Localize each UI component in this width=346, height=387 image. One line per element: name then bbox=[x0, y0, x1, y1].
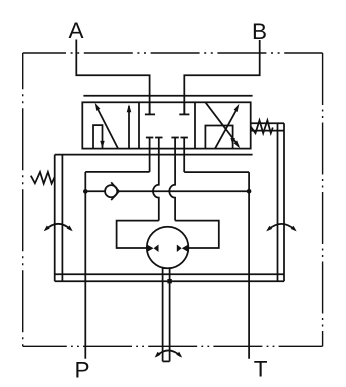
directional valve V1 body (3 position boxes) bbox=[82, 102, 250, 148]
spring cavity channel lines bbox=[251, 123, 284, 130]
valve right position: crossed arrow up-right bbox=[215, 104, 239, 149]
junction node on P gallery bbox=[83, 189, 88, 194]
wire: valve bottom stub 2 down to motor loop (with hop over check line) bbox=[153, 138, 159, 221]
svg-text:P: P bbox=[74, 357, 89, 382]
valve right position: crossed arrow down-right bbox=[205, 102, 240, 148]
svg-text:A: A bbox=[68, 18, 83, 43]
wire: motor loop left branch bbox=[117, 221, 159, 248]
plugged-port arc arrow on right channel bbox=[266, 224, 297, 232]
wire: port B line down, left, into valve port B with blocked cap bbox=[179, 40, 259, 114]
flow divider (motor) circle M1 bbox=[147, 227, 189, 269]
wire: valve bottom stub 4 to T gallery (right work line) bbox=[184, 138, 249, 359]
wire: drain channel from motor bottom (double line) bbox=[163, 267, 170, 362]
valve left position: pocket with down arrow bbox=[93, 125, 105, 149]
left bowtie triangles inside circle bbox=[147, 245, 159, 253]
junction node (square) drain to bottom gallery bbox=[167, 279, 171, 283]
valve return spring (right side) bbox=[251, 120, 273, 133]
right bowtie triangles inside circle bbox=[177, 245, 189, 253]
manifold block bottom double edge bbox=[55, 274, 284, 281]
wire: motor loop right branch bbox=[175, 221, 219, 248]
plugged-port arc arrow on left channel bbox=[44, 224, 73, 232]
valve left position: diagonal flow arrow P-to-A bbox=[95, 103, 118, 149]
wire: valve bottom stub 1 to P gallery (left work line) bbox=[85, 138, 149, 359]
check valve line P to T bbox=[85, 190, 249, 192]
valve centre position: four blocked bottom stubs caps bbox=[146, 137, 188, 139]
wire: port A line down, right, into valve port A with blocked cap bbox=[76, 40, 155, 115]
wire: valve bottom stub 3 down to motor loop (with hop over check line) bbox=[169, 138, 175, 221]
junction node on T gallery bbox=[247, 189, 252, 194]
valve right position: pocket with down arrow bbox=[205, 126, 234, 149]
manifold block top edge bbox=[55, 154, 253, 156]
line above valve (subplate interface) bbox=[83, 95, 252, 97]
valve left position: vertical up flow arrow bbox=[127, 104, 132, 148]
enclosure boundary (dash-dot-dot frame) bbox=[23, 53, 323, 346]
manifold block right double edge (channel from spring) bbox=[278, 123, 285, 281]
valve centre position: blocked port A cap bbox=[149, 102, 151, 114]
manifold block left double edge bbox=[55, 155, 63, 282]
svg-text:T: T bbox=[254, 356, 268, 381]
plugged-port arc arrow on drain channel bbox=[155, 350, 183, 357]
check valve C1 bbox=[105, 182, 119, 200]
valve centre position: blocked port B cap bbox=[183, 102, 185, 114]
spring on left channel bbox=[31, 172, 55, 184]
